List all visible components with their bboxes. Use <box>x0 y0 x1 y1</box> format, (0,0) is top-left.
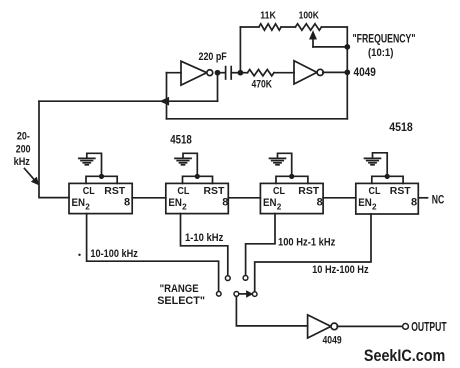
switch S1 pole <box>234 292 239 297</box>
svg-text:EN: EN <box>358 197 372 209</box>
switch S1 wiper arrow <box>239 293 248 295</box>
resistor 470K <box>248 70 275 76</box>
op-amp U5 output inverter 4049c <box>308 315 331 338</box>
svg-text:11K: 11K <box>260 11 276 22</box>
svg-text:NC: NC <box>432 193 445 206</box>
svg-text:(10:1): (10:1) <box>368 47 394 59</box>
svg-text:CL: CL <box>273 186 286 197</box>
counter U3a box <box>69 183 132 213</box>
potentiometer wiper arrow <box>312 36 314 47</box>
node wiper junction <box>344 44 350 50</box>
node box2 bracket junction <box>195 174 200 179</box>
svg-text:SeekIC.com: SeekIC.com <box>364 346 445 365</box>
svg-text:2: 2 <box>85 203 90 212</box>
svg-text:100 Hz-1 kHz: 100 Hz-1 kHz <box>278 236 336 248</box>
wire box4 NC stub <box>418 197 427 199</box>
svg-text:4049: 4049 <box>354 66 377 79</box>
svg-text:RST: RST <box>390 186 412 197</box>
wire box4 ground connection <box>373 153 388 177</box>
node inverter1 output junction <box>215 70 221 76</box>
wire feedback horizontal to bus <box>39 100 218 102</box>
switch S1 contact 10Hz-100Hz <box>252 292 257 297</box>
node artifact dot <box>78 254 80 256</box>
wire to capacitor <box>218 72 225 74</box>
wire inverter3 to output terminal <box>337 325 402 327</box>
wire between 11K and 100K <box>281 26 295 28</box>
svg-text:8: 8 <box>317 197 323 209</box>
svg-text:RST: RST <box>104 186 126 197</box>
wire RST bracket box1 <box>86 176 117 183</box>
svg-text:4518: 4518 <box>170 133 192 147</box>
svg-text:8: 8 <box>222 197 228 209</box>
svg-text:10-100 kHz: 10-100 kHz <box>90 248 138 260</box>
wire top line right + right vertical down <box>322 27 348 119</box>
node OUTPUT terminal <box>403 324 409 330</box>
op-amp U1 inverter 4049a <box>181 61 207 85</box>
wire box3 to box4 <box>323 197 356 199</box>
switch S1 contact 1-10kHz <box>225 276 230 281</box>
svg-text:2: 2 <box>372 203 377 212</box>
svg-text:200: 200 <box>16 143 31 155</box>
wire node to 470K <box>240 72 247 74</box>
counter U4a box <box>260 183 323 213</box>
wire top line segment left <box>240 26 259 28</box>
wire box1 ground connection <box>87 153 102 176</box>
ground box3 <box>270 157 286 159</box>
svg-text:2: 2 <box>182 203 187 212</box>
svg-text:220 pF: 220 pF <box>199 51 228 63</box>
node box3 bracket junction <box>289 174 294 179</box>
wire inverter1 input vertical <box>166 73 168 119</box>
svg-text:8: 8 <box>411 197 417 209</box>
wire tap3 100Hz-1kHz <box>246 214 275 276</box>
wire capacitor to node <box>231 72 240 74</box>
svg-text:10 Hz-100 Hz: 10 Hz-100 Hz <box>312 264 369 276</box>
wire RST bracket box2 <box>183 176 213 183</box>
svg-text:4049: 4049 <box>323 335 342 347</box>
wire box2 ground connection <box>183 153 197 176</box>
svg-text:"RANGE: "RANGE <box>160 283 199 295</box>
wire RST bracket box4 <box>372 176 403 183</box>
wire lower feedback horizontal <box>167 118 348 120</box>
switch S1 contact 10-100kHz <box>217 292 222 297</box>
wire pole to output inverter <box>236 296 307 326</box>
svg-text:2: 2 <box>277 203 282 212</box>
svg-text:kHz: kHz <box>14 156 31 168</box>
svg-text:8: 8 <box>124 197 130 209</box>
capacitor 220pF <box>225 67 227 79</box>
svg-text:RST: RST <box>298 186 320 197</box>
svg-text:EN: EN <box>72 197 86 209</box>
resistor 11K <box>259 24 281 30</box>
svg-text:"FREQUENCY": "FREQUENCY" <box>353 31 416 45</box>
node 4049 output junction <box>344 69 350 75</box>
wire left bus <box>39 101 69 197</box>
svg-text:EN: EN <box>263 197 277 209</box>
wire tap2 1-10kHz <box>181 214 228 276</box>
wire box2 to box3 <box>228 197 260 199</box>
svg-text:470K: 470K <box>252 79 273 91</box>
wire tap1 10-100kHz <box>87 214 219 292</box>
wire wiper to node <box>313 46 347 48</box>
switch S1 contact 100Hz-1kHz <box>243 276 248 281</box>
svg-text:RST: RST <box>204 186 226 197</box>
node box1 bracket junction <box>99 174 104 179</box>
wire RST bracket box3 <box>276 176 308 183</box>
svg-text:20-: 20- <box>17 130 30 142</box>
svg-text:EN: EN <box>168 197 182 209</box>
node cap/470K junction <box>238 70 244 76</box>
svg-text:CL: CL <box>369 186 382 197</box>
ground box4 <box>365 157 381 159</box>
counter U3b box <box>166 183 229 213</box>
wire inverter1 input <box>167 72 182 74</box>
node box4 bracket junction <box>385 174 390 179</box>
svg-text:1-10 kHz: 1-10 kHz <box>185 232 224 244</box>
wire tap4 10Hz-100Hz <box>255 214 371 292</box>
wire top feedback left vertical <box>239 27 241 73</box>
svg-text:100K: 100K <box>299 10 320 21</box>
svg-text:CL: CL <box>83 186 96 197</box>
svg-text:CL: CL <box>177 186 190 197</box>
svg-text:4518: 4518 <box>389 120 413 134</box>
wire inverter1 output feedback down <box>217 75 219 101</box>
wire inverter2 output <box>323 71 348 73</box>
potentiometer 100K <box>295 24 321 30</box>
svg-text:OUTPUT: OUTPUT <box>411 319 446 334</box>
node feedback arrow junction <box>161 98 169 105</box>
wire box1 to box2 <box>132 197 166 199</box>
wire 470K to inverter2 <box>274 71 294 73</box>
wire box3 ground connection <box>278 153 292 176</box>
counter U4b box <box>356 183 419 214</box>
ground box1 <box>79 157 95 159</box>
ground box2 <box>175 157 191 159</box>
wire label leader arrow <box>25 169 36 181</box>
op-amp U2 inverter 4049b <box>294 61 317 84</box>
svg-text:SELECT": SELECT" <box>157 295 205 307</box>
